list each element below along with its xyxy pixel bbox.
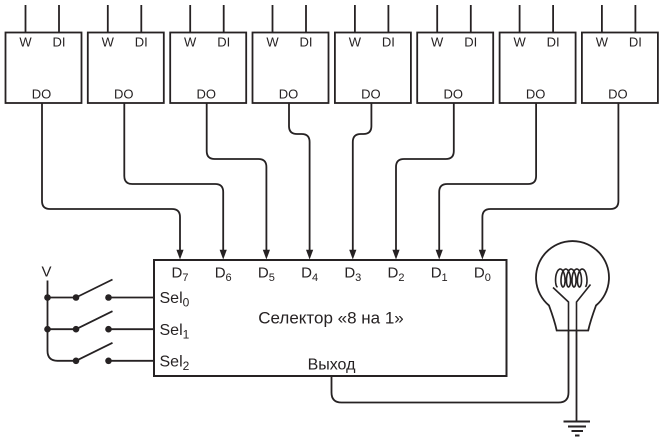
svg-text:DO: DO (196, 87, 216, 102)
switch S3 (73, 343, 113, 364)
svg-text:Выход: Выход (308, 357, 357, 374)
wire M1.DO to selector input D7 (42, 103, 180, 251)
wire W input of M8 (601, 5, 603, 33)
memory cell M2 (88, 33, 164, 104)
svg-text:DO: DO (443, 87, 463, 102)
wire V bus (48, 281, 77, 361)
switch S2 (73, 311, 113, 332)
memory cell M4 (253, 33, 329, 104)
wire bus to S1 (48, 297, 77, 299)
svg-text:W: W (513, 35, 526, 50)
svg-text:W: W (349, 35, 362, 50)
svg-text:W: W (19, 35, 32, 50)
lamp HL1 envelope (536, 241, 609, 330)
svg-text:DO: DO (608, 87, 628, 102)
wire W input of M5 (354, 5, 356, 33)
svg-text:DO: DO (526, 87, 546, 102)
lamp filament lead left (553, 288, 569, 331)
wire M6.DO to selector input D2 (396, 103, 454, 251)
svg-text:W: W (184, 35, 197, 50)
lamp filament lead right (577, 285, 591, 331)
wire W input of M3 (189, 5, 191, 33)
wire M3.DO to selector input D5 (207, 103, 267, 251)
svg-text:DI: DI (135, 35, 148, 50)
svg-text:W: W (596, 35, 609, 50)
lamp filament coil (556, 269, 588, 287)
memory cell M3 (170, 33, 246, 104)
svg-text:DI: DI (300, 35, 313, 50)
wire W input of M7 (519, 5, 521, 33)
wire DI input of M2 (140, 5, 142, 33)
memory cell M8 (582, 33, 658, 104)
junction node at Sel0 row (44, 294, 51, 301)
svg-text:W: W (266, 35, 279, 50)
wire DI input of M5 (387, 5, 389, 33)
svg-text:DI: DI (629, 35, 642, 50)
wire S3 to Sel2 (109, 360, 155, 362)
svg-text:DI: DI (53, 35, 66, 50)
junction node at Sel1 row (44, 326, 51, 333)
svg-text:DO: DO (279, 87, 299, 102)
svg-text:W: W (431, 35, 444, 50)
memory cell M1 (6, 33, 82, 104)
wire M7.DO to selector input D1 (439, 103, 536, 251)
svg-text:V: V (41, 264, 51, 281)
memory cell M6 (417, 33, 493, 104)
memory cell M5 (335, 33, 411, 104)
svg-text:DI: DI (382, 35, 395, 50)
wire W input of M4 (272, 5, 274, 33)
wire M4.DO to selector input D4 (289, 103, 310, 251)
wire S1 to Sel0 (109, 297, 155, 299)
wire S2 to Sel1 (109, 328, 155, 330)
wire M5.DO to selector input D3 (353, 103, 372, 251)
svg-text:DO: DO (114, 87, 134, 102)
wire W input of M1 (25, 5, 27, 33)
wire DI input of M4 (305, 5, 307, 33)
svg-text:DI: DI (464, 35, 477, 50)
wire M2.DO to selector input D6 (124, 103, 223, 251)
wire DI input of M7 (552, 5, 554, 33)
wire DI input of M8 (634, 5, 636, 33)
switch S1 (73, 280, 113, 301)
wire M8.DO to selector input D0 (482, 103, 618, 251)
wire Выход output to lamp (332, 331, 569, 403)
svg-text:DI: DI (547, 35, 560, 50)
selector U1 (154, 260, 507, 376)
svg-text:Селектор «8 на 1»: Селектор «8 на 1» (258, 309, 404, 328)
wire DI input of M6 (470, 5, 472, 33)
wire W input of M6 (436, 5, 438, 33)
svg-text:DI: DI (217, 35, 230, 50)
svg-text:DO: DO (361, 87, 381, 102)
wire DI input of M3 (223, 5, 225, 33)
wire DI input of M1 (58, 5, 60, 33)
svg-text:W: W (102, 35, 115, 50)
svg-text:DO: DO (32, 87, 52, 102)
ground (564, 422, 591, 436)
wire bus to S2 (48, 328, 77, 330)
wire lamp to ground (576, 331, 578, 422)
wire W input of M2 (107, 5, 109, 33)
memory cell M7 (500, 33, 576, 104)
